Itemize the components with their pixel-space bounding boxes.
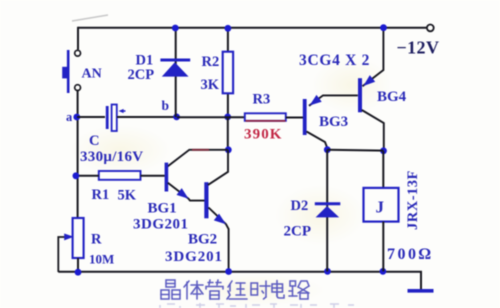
wire BG2 emitter bbox=[209, 208, 229, 272]
svg-text:AN: AN bbox=[82, 67, 102, 82]
wire R3 to BG3 base bbox=[286, 117, 303, 119]
wire D2 branch bbox=[326, 150, 328, 272]
wiper arrow bbox=[58, 237, 69, 272]
ground symbol bbox=[408, 289, 434, 293]
transistor BG2 base bar bbox=[204, 182, 208, 218]
resistor R1 5K bbox=[99, 171, 141, 180]
svg-text:R1: R1 bbox=[92, 187, 110, 203]
svg-text:700Ω: 700Ω bbox=[387, 246, 433, 263]
pushbutton AN bbox=[62, 50, 80, 93]
svg-text:BG1: BG1 bbox=[148, 201, 177, 217]
svg-text:b: b bbox=[162, 98, 170, 113]
svg-text:R2: R2 bbox=[202, 54, 220, 70]
wire bottom ground rail bbox=[58, 272, 421, 289]
relay J coil box bbox=[364, 188, 399, 222]
title 晶体管延时电路 (drawn strokes) bbox=[161, 280, 309, 299]
node junction pot/rail bbox=[75, 269, 82, 276]
svg-text:2CP: 2CP bbox=[284, 224, 312, 240]
node junction BG2 emitter/rail bbox=[225, 268, 232, 275]
char 时 bbox=[251, 281, 270, 299]
node junction rail/BG4 bbox=[380, 24, 387, 31]
terminal -12V bbox=[427, 25, 434, 32]
svg-text:3DG201: 3DG201 bbox=[133, 217, 189, 233]
svg-text:5K: 5K bbox=[118, 188, 137, 204]
diode D2 bbox=[315, 204, 341, 218]
wire collector link bbox=[327, 149, 383, 152]
wire button bottom to node a and down to pot bbox=[77, 91, 79, 218]
node b bbox=[173, 114, 180, 121]
svg-text:−12V: −12V bbox=[397, 38, 440, 58]
char 路 bbox=[289, 281, 309, 299]
svg-text:3CG4 X 2: 3CG4 X 2 bbox=[299, 52, 370, 69]
wire capacitor to node b bbox=[117, 116, 176, 118]
wire BG4 emitter to rail bbox=[363, 28, 384, 87]
wire top supply rail bbox=[78, 27, 426, 29]
wire node b up through D1 to rail bbox=[175, 28, 177, 117]
wire BG1 collector bbox=[168, 150, 229, 167]
svg-text:2CP: 2CP bbox=[128, 67, 155, 83]
svg-text:a: a bbox=[66, 110, 73, 124]
scan streak (decorative) bbox=[72, 15, 108, 21]
node junction D2/rail bbox=[324, 268, 331, 275]
faint cut-off text row at bottom edge bbox=[160, 303, 354, 308]
transistor BG1 base bar bbox=[165, 163, 169, 192]
capacitor C 330u/16V bbox=[106, 105, 126, 132]
wire BG4 collector bbox=[362, 110, 384, 151]
node collectors junction bbox=[225, 146, 232, 153]
arrow BG4 emitter bbox=[363, 75, 375, 86]
wire relay bottom bbox=[382, 222, 384, 272]
wire red scan artifact on collector wire bbox=[192, 149, 209, 151]
node junction relay/rail bbox=[380, 268, 387, 275]
node junction BG3 collector bbox=[324, 146, 331, 153]
potentiometer R 10M body bbox=[73, 218, 84, 258]
wire node b to R3 bbox=[177, 116, 245, 118]
svg-text:R3: R3 bbox=[253, 92, 271, 108]
arrow BG3 emitter bbox=[310, 95, 322, 106]
node junction rail/D1 bbox=[172, 25, 179, 32]
resistor R2 3K bbox=[223, 52, 233, 94]
char 延 bbox=[227, 281, 247, 299]
wire R2 bottom down to collectors node bbox=[227, 117, 229, 150]
wire BG2 collector bbox=[208, 150, 228, 185]
svg-text:JRX-13F: JRX-13F bbox=[405, 170, 421, 230]
wire BG3 emitter to BG4 base bbox=[309, 95, 358, 105]
svg-text:R: R bbox=[91, 232, 102, 248]
svg-text:J: J bbox=[376, 198, 385, 217]
char 电 bbox=[272, 281, 284, 299]
char 晶 bbox=[161, 280, 180, 299]
node junction left rail / R1 bbox=[73, 172, 80, 179]
svg-text:390K: 390K bbox=[244, 127, 283, 143]
node junction rail/R2 bbox=[225, 25, 232, 32]
svg-text:BG2: BG2 bbox=[188, 232, 217, 248]
node a bbox=[73, 114, 80, 121]
wire a to capacitor bbox=[77, 116, 105, 118]
wire left rail to R1 bbox=[76, 175, 99, 177]
wire from rail to button top bbox=[77, 27, 79, 50]
arrow BG1 emitter bbox=[177, 188, 189, 199]
svg-text:BG3: BG3 bbox=[319, 114, 348, 130]
diode D1 bbox=[160, 60, 190, 77]
wire R1 to BG1 base bbox=[141, 175, 165, 177]
svg-text:C: C bbox=[89, 133, 99, 149]
char 管 bbox=[206, 280, 223, 299]
transistor BG3 base bar bbox=[303, 99, 307, 135]
wire pot bottom to rail bbox=[77, 258, 79, 272]
wire relay top bbox=[382, 151, 384, 188]
transistor BG4 base bar bbox=[358, 78, 362, 112]
svg-text:10M: 10M bbox=[89, 252, 114, 267]
svg-text:3DG201: 3DG201 bbox=[165, 249, 223, 265]
wire BG3 collector bbox=[307, 132, 328, 149]
wire R2 branch vertical bbox=[227, 28, 229, 117]
wire BG1 emitter bbox=[168, 183, 205, 201]
svg-text:BG4: BG4 bbox=[377, 89, 407, 105]
node junction R2 bottom bbox=[224, 114, 231, 121]
svg-text:D2: D2 bbox=[291, 198, 309, 214]
arrow BG2 emitter bbox=[214, 214, 226, 225]
resistor R3 390K bbox=[245, 113, 286, 121]
char 体 bbox=[184, 281, 203, 299]
svg-text:330μ/16V: 330μ/16V bbox=[80, 149, 143, 165]
node junction BG4 collector bbox=[380, 147, 387, 154]
svg-text:3K: 3K bbox=[201, 77, 220, 93]
